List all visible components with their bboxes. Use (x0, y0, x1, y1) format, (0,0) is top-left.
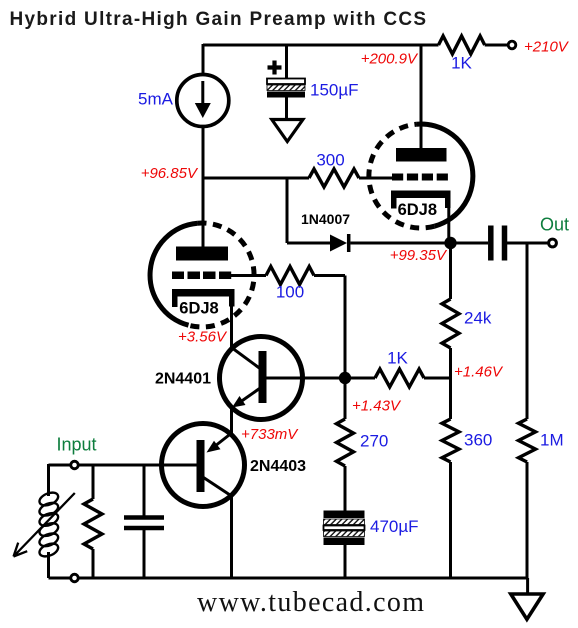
wire CS top (202, 44, 205, 74)
wire input cap (143, 465, 146, 578)
svg-text:24k: 24k (464, 309, 492, 328)
arrow variable inductor (14, 493, 75, 557)
wire cap to Out (507, 242, 548, 245)
wire Q1 base (267, 377, 346, 380)
plate (396, 148, 447, 162)
svg-text:2N4401: 2N4401 (155, 371, 211, 388)
svg-text:Out: Out (540, 215, 569, 235)
wire input top (49, 464, 197, 467)
wire CS bottom to tube V2 plate (202, 126, 205, 247)
terminal Out (549, 239, 557, 247)
svg-text:Input: Input (57, 435, 97, 455)
svg-text:6DJ8: 6DJ8 (179, 299, 218, 317)
wire V1 plate to top rail (420, 45, 423, 148)
wire 24k column (449, 243, 452, 578)
svg-text:150µF: 150µF (310, 81, 359, 100)
wire 150uF bottom (285, 98, 288, 120)
cathode (391, 191, 451, 199)
resistor R1 1K (439, 36, 485, 54)
wire diode branch (287, 178, 445, 243)
wire bottom rail (49, 577, 528, 580)
svg-text:+733mV: +733mV (241, 426, 299, 443)
transistor Q2 2N4403 (162, 424, 245, 507)
wire grid to 100 (231, 276, 345, 373)
dashed arc (189, 223, 255, 327)
svg-text:1M: 1M (540, 431, 564, 450)
wire 150uF top (285, 45, 288, 79)
resistor R2 300 (309, 169, 359, 187)
svg-text:+99.35V: +99.35V (390, 247, 448, 264)
tube V2 left 6DJ8 (150, 223, 254, 327)
dashed arc (369, 124, 435, 228)
svg-text:+1.43V: +1.43V (352, 398, 402, 415)
resistor R3 1K (375, 369, 424, 387)
svg-text:300: 300 (316, 151, 344, 170)
capacitor C3 470uF (324, 511, 365, 546)
resistor R7 270 (337, 419, 354, 466)
ground bottom right (511, 594, 543, 619)
svg-text:360: 360 (464, 431, 492, 450)
resistor R5 360 (442, 419, 459, 462)
transistor Q1 2N4401 (220, 337, 303, 420)
wire 1K mid (345, 377, 451, 380)
wire V1 cathode to node (447, 205, 450, 240)
terminal input top (71, 461, 79, 469)
wire Q1 emitter to Q2 (230, 407, 233, 435)
capacitor C1 150uF (267, 61, 305, 98)
node base (339, 372, 351, 384)
capacitor C2 coupling (491, 226, 505, 261)
wire Q2 collector down (230, 496, 233, 578)
terminal input bottom (71, 574, 79, 582)
resistor R9 input (84, 499, 102, 549)
wire input left (47, 464, 50, 578)
capacitor C4 input (124, 518, 164, 529)
resistor R6 1M (519, 419, 536, 462)
svg-text:+96.85V: +96.85V (141, 165, 199, 182)
wire cathode to Q1 (230, 296, 233, 348)
wire 270 column (344, 378, 347, 578)
grid (172, 272, 184, 280)
wire +96.85V rail (203, 177, 392, 180)
ground below 150uF (272, 120, 303, 142)
svg-text:1N4007: 1N4007 (301, 211, 350, 227)
svg-text:2N4403: 2N4403 (250, 458, 306, 475)
solid arc (150, 223, 197, 325)
svg-text:1K: 1K (451, 54, 472, 73)
wire top rail (203, 44, 507, 47)
wire input resistor (92, 465, 95, 578)
svg-text:+210V: +210V (524, 39, 570, 56)
svg-text:Hybrid Ultra-High Gain Preamp: Hybrid Ultra-High Gain Preamp with CCS (10, 9, 428, 30)
wire node to coupling cap (451, 242, 489, 245)
cathode (172, 289, 235, 297)
svg-text:+1.46V: +1.46V (454, 364, 504, 381)
wire 1M bottom (526, 462, 529, 578)
inductor L1 (38, 490, 60, 559)
resistor R4 24k (442, 299, 459, 348)
tube V1 right 6DJ8 (369, 124, 473, 228)
grid (392, 174, 403, 181)
solid arc (417, 124, 473, 226)
wire ground stub (526, 578, 529, 594)
svg-text:100: 100 (276, 283, 304, 302)
svg-text:470µF: 470µF (370, 517, 419, 536)
plate (176, 247, 228, 261)
wire 1M branch down (526, 243, 529, 419)
svg-text:www.tubecad.com: www.tubecad.com (197, 587, 425, 618)
resistor R8 100 (266, 267, 314, 285)
svg-text:270: 270 (360, 432, 388, 451)
current source I1 5mA (177, 75, 229, 127)
diode D1 1N4007 (330, 235, 347, 252)
svg-text:6DJ8: 6DJ8 (398, 201, 437, 219)
terminal +210V (508, 41, 516, 49)
svg-text:+3.56V: +3.56V (178, 329, 228, 346)
svg-text:+200.9V: +200.9V (361, 51, 419, 68)
svg-text:1K: 1K (387, 349, 408, 368)
node +99.35V (444, 237, 456, 249)
svg-text:5mA: 5mA (138, 90, 174, 109)
